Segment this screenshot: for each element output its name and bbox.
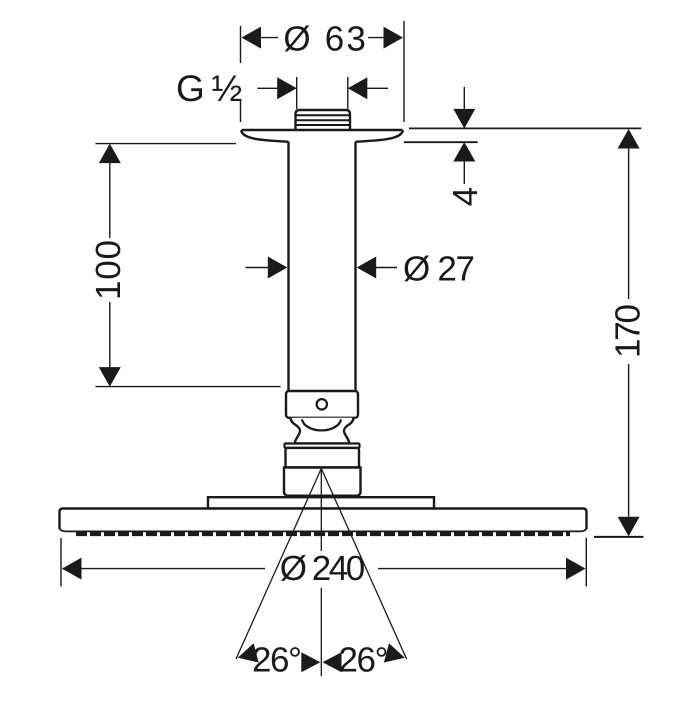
dimension Ø63 line and arrows bbox=[242, 27, 404, 49]
pipe Ø27 bbox=[289, 142, 356, 392]
spray cone right line bbox=[321, 469, 406, 660]
angle 26 deg right arrowhead on cone line bbox=[384, 643, 405, 662]
svg-text:G: G bbox=[176, 68, 205, 109]
svg-text:170: 170 bbox=[608, 304, 647, 358]
dimension Ø240 line and arrows bbox=[62, 558, 586, 580]
svg-text:Ø 27: Ø 27 bbox=[403, 250, 475, 289]
ceiling escutcheon plate bbox=[242, 130, 403, 142]
dimension Ø63 extension lines bbox=[241, 21, 405, 122]
ball joint bbox=[291, 418, 354, 444]
shower head slab bbox=[60, 509, 587, 530]
connector upper block bbox=[286, 448, 360, 468]
dimension 100 reference lines bbox=[96, 144, 281, 387]
dimension Ø27 arrows bbox=[245, 257, 397, 279]
dimension 100 line and arrows bbox=[99, 144, 121, 387]
dimension 170 line and arrows bbox=[594, 129, 644, 537]
angle 26 deg left arrowhead on cone line bbox=[238, 643, 259, 662]
dimension 4 arrows bbox=[453, 87, 475, 184]
shower head bottom rim bbox=[60, 527, 587, 531]
connector lower block bbox=[284, 468, 361, 496]
dimension G 1/2 arrows bbox=[258, 77, 389, 109]
spray cone centre line bbox=[320, 469, 322, 676]
connector lip bbox=[285, 444, 360, 448]
angle 26 deg left-centre arrowhead bbox=[301, 652, 320, 672]
svg-text:Ø 63: Ø 63 bbox=[283, 20, 366, 59]
svg-text:26°: 26° bbox=[252, 641, 302, 680]
angle 26 deg right-centre arrowhead bbox=[323, 652, 342, 672]
head mounting plate bbox=[208, 497, 434, 508]
spray cone left line bbox=[236, 469, 321, 660]
svg-text:26°: 26° bbox=[339, 641, 389, 680]
collar with set-screw hole bbox=[286, 391, 358, 418]
dimension Ø240 extension lines bbox=[61, 538, 586, 587]
dimension 4 reference lines bbox=[404, 128, 641, 142]
svg-text:½: ½ bbox=[212, 68, 243, 109]
svg-text:100: 100 bbox=[89, 240, 128, 300]
spray nozzle strip bbox=[76, 532, 570, 536]
svg-text:Ø 240: Ø 240 bbox=[280, 549, 366, 588]
svg-text:4: 4 bbox=[446, 187, 485, 206]
threaded nipple G1/2 bbox=[296, 110, 351, 130]
